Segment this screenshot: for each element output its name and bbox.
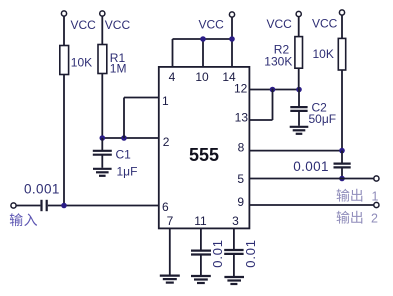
capacitor 0.001 (input) [42,200,47,211]
wire pin4 stub [172,39,174,67]
power terminal VCC (R1) [100,11,105,16]
wire pin12 net [249,89,299,91]
ground (pin7) [160,276,180,283]
svg-text:10K: 10K [71,56,92,70]
junction R2/C2/pin12 [296,87,302,93]
value label 0.01 (pin11) [210,239,225,268]
pin number 8 [238,140,245,154]
VCC label 3 [199,18,225,32]
output terminal 2 [374,202,379,207]
resistor R1 [98,45,107,74]
junction pin13 riser [270,87,276,93]
svg-text:5: 5 [237,172,244,186]
pin number 10 [195,70,209,84]
value label R2 130K [264,43,292,69]
wire pin13 horizontal [249,119,272,121]
wire [63,16,65,45]
wire [233,254,235,276]
value label 0.001 (input) [24,181,60,196]
ground (C1) [93,169,112,176]
pin number 14 [222,70,236,84]
wire top bus [173,38,233,40]
value label 0.001 (right) [293,159,329,174]
node output1 label [337,189,379,204]
power terminal VCC (R2) [296,11,301,16]
wire [200,255,202,276]
svg-text:1: 1 [372,190,379,204]
node input label [10,213,37,226]
pin number 11 [194,214,207,228]
resistor 10K (right) [338,38,345,70]
wire pin1 horizontal [124,97,159,99]
svg-text:0.001: 0.001 [24,181,60,196]
svg-text:2: 2 [371,212,378,226]
pin number 2 [163,135,170,149]
svg-text:555: 555 [189,145,219,165]
svg-text:0.01: 0.01 [243,239,258,268]
svg-text:13: 13 [235,111,249,125]
resistor R2 [295,37,303,69]
junction pin1 drop [121,135,127,141]
output terminal 1 [374,176,379,181]
ground (C2) [290,127,309,134]
pin number 6 [162,200,169,214]
capacitor C1 [93,138,112,168]
value label 0.01 (pin3) [243,239,258,268]
svg-text:6: 6 [162,200,169,214]
pin number 1 [162,94,169,108]
svg-text:7: 7 [167,214,174,228]
wire [16,205,40,207]
capacitor 0.001 (right) [334,151,351,179]
pin number 12 [234,82,248,96]
VCC label 4 [267,17,293,31]
svg-text:1: 1 [162,94,169,108]
wire [63,75,65,206]
wire pin9 net [249,204,373,206]
svg-text:12: 12 [234,82,248,96]
svg-text:8: 8 [238,140,245,154]
svg-text:C1: C1 [116,148,132,162]
wire pin2 net [102,137,159,139]
junction R1/C1/pin2 [100,135,106,141]
op-amp U1 555 IC body [159,67,250,229]
value label 555 [189,145,219,165]
svg-text:9: 9 [237,195,244,209]
ground (pin3) [224,277,244,284]
value label 10K (left) [71,56,92,70]
capacitor C2 [290,90,307,126]
wire [298,17,300,37]
junction pin8/10K [339,148,345,154]
svg-text:VCC: VCC [199,18,225,32]
VCC label 2 [105,18,131,32]
svg-text:VCC: VCC [71,18,97,32]
power terminal VCC (top middle) [229,12,234,17]
junction pin5/cap [339,176,345,182]
wire pin10 stub [202,39,204,67]
svg-text:VCC: VCC [267,17,293,31]
wire [231,17,233,39]
svg-text:1M: 1M [110,62,127,76]
wire [298,68,300,89]
pin number 7 [167,214,174,228]
power terminal VCC (right, 10K) [339,10,344,15]
value label C1 1uF [116,148,138,179]
node output2 label [337,211,378,226]
junction pin14/bus [229,36,235,42]
svg-text:130K: 130K [264,55,292,69]
svg-text:0.001: 0.001 [293,159,329,174]
value label R1 1M [110,51,127,76]
svg-text:3: 3 [232,214,239,228]
pin number 4 [169,70,176,84]
VCC label 5 [312,17,338,31]
svg-text:50μF: 50μF [309,112,337,126]
resistor 10K (left) [60,46,69,75]
junction pin10/bus [200,36,206,42]
wire [101,74,103,139]
wire pin3 stub [233,228,235,249]
svg-text:4: 4 [169,70,176,84]
svg-text:0.01: 0.01 [210,239,225,268]
capacitor 0.01 (pin3) [224,250,243,254]
wire pin7 stub [169,228,171,274]
VCC label 1 [71,18,97,32]
svg-text:2: 2 [163,135,170,149]
pin number 9 [237,195,244,209]
wire [101,16,103,44]
power terminal VCC (left, 10K) [61,11,66,16]
wire [341,70,343,151]
pin number 5 [237,172,244,186]
svg-text:11: 11 [194,214,207,228]
capacitor 0.01 (pin11) [191,251,211,255]
svg-text:1μF: 1μF [117,165,138,179]
wire pin5 net [249,178,373,180]
wire pin13 vertical [272,89,274,120]
input terminal [11,203,16,208]
pin number 3 [232,214,239,228]
pin number 13 [235,111,249,125]
junction input/10K [61,203,67,209]
value label 10K (right) [313,47,334,61]
wire pin1 vertical [123,98,125,139]
svg-text:10K: 10K [313,47,334,61]
svg-text:VCC: VCC [312,17,338,31]
wire [341,15,343,38]
value label C2 50uF [309,101,337,127]
wire pin6 net [48,205,159,207]
wire pin8 net [249,150,342,152]
ground (pin11) [191,276,211,283]
svg-text:VCC: VCC [105,18,131,32]
wire pin11 stub [200,228,202,250]
svg-text:10: 10 [195,70,209,84]
wire pin14 stub [231,39,233,67]
